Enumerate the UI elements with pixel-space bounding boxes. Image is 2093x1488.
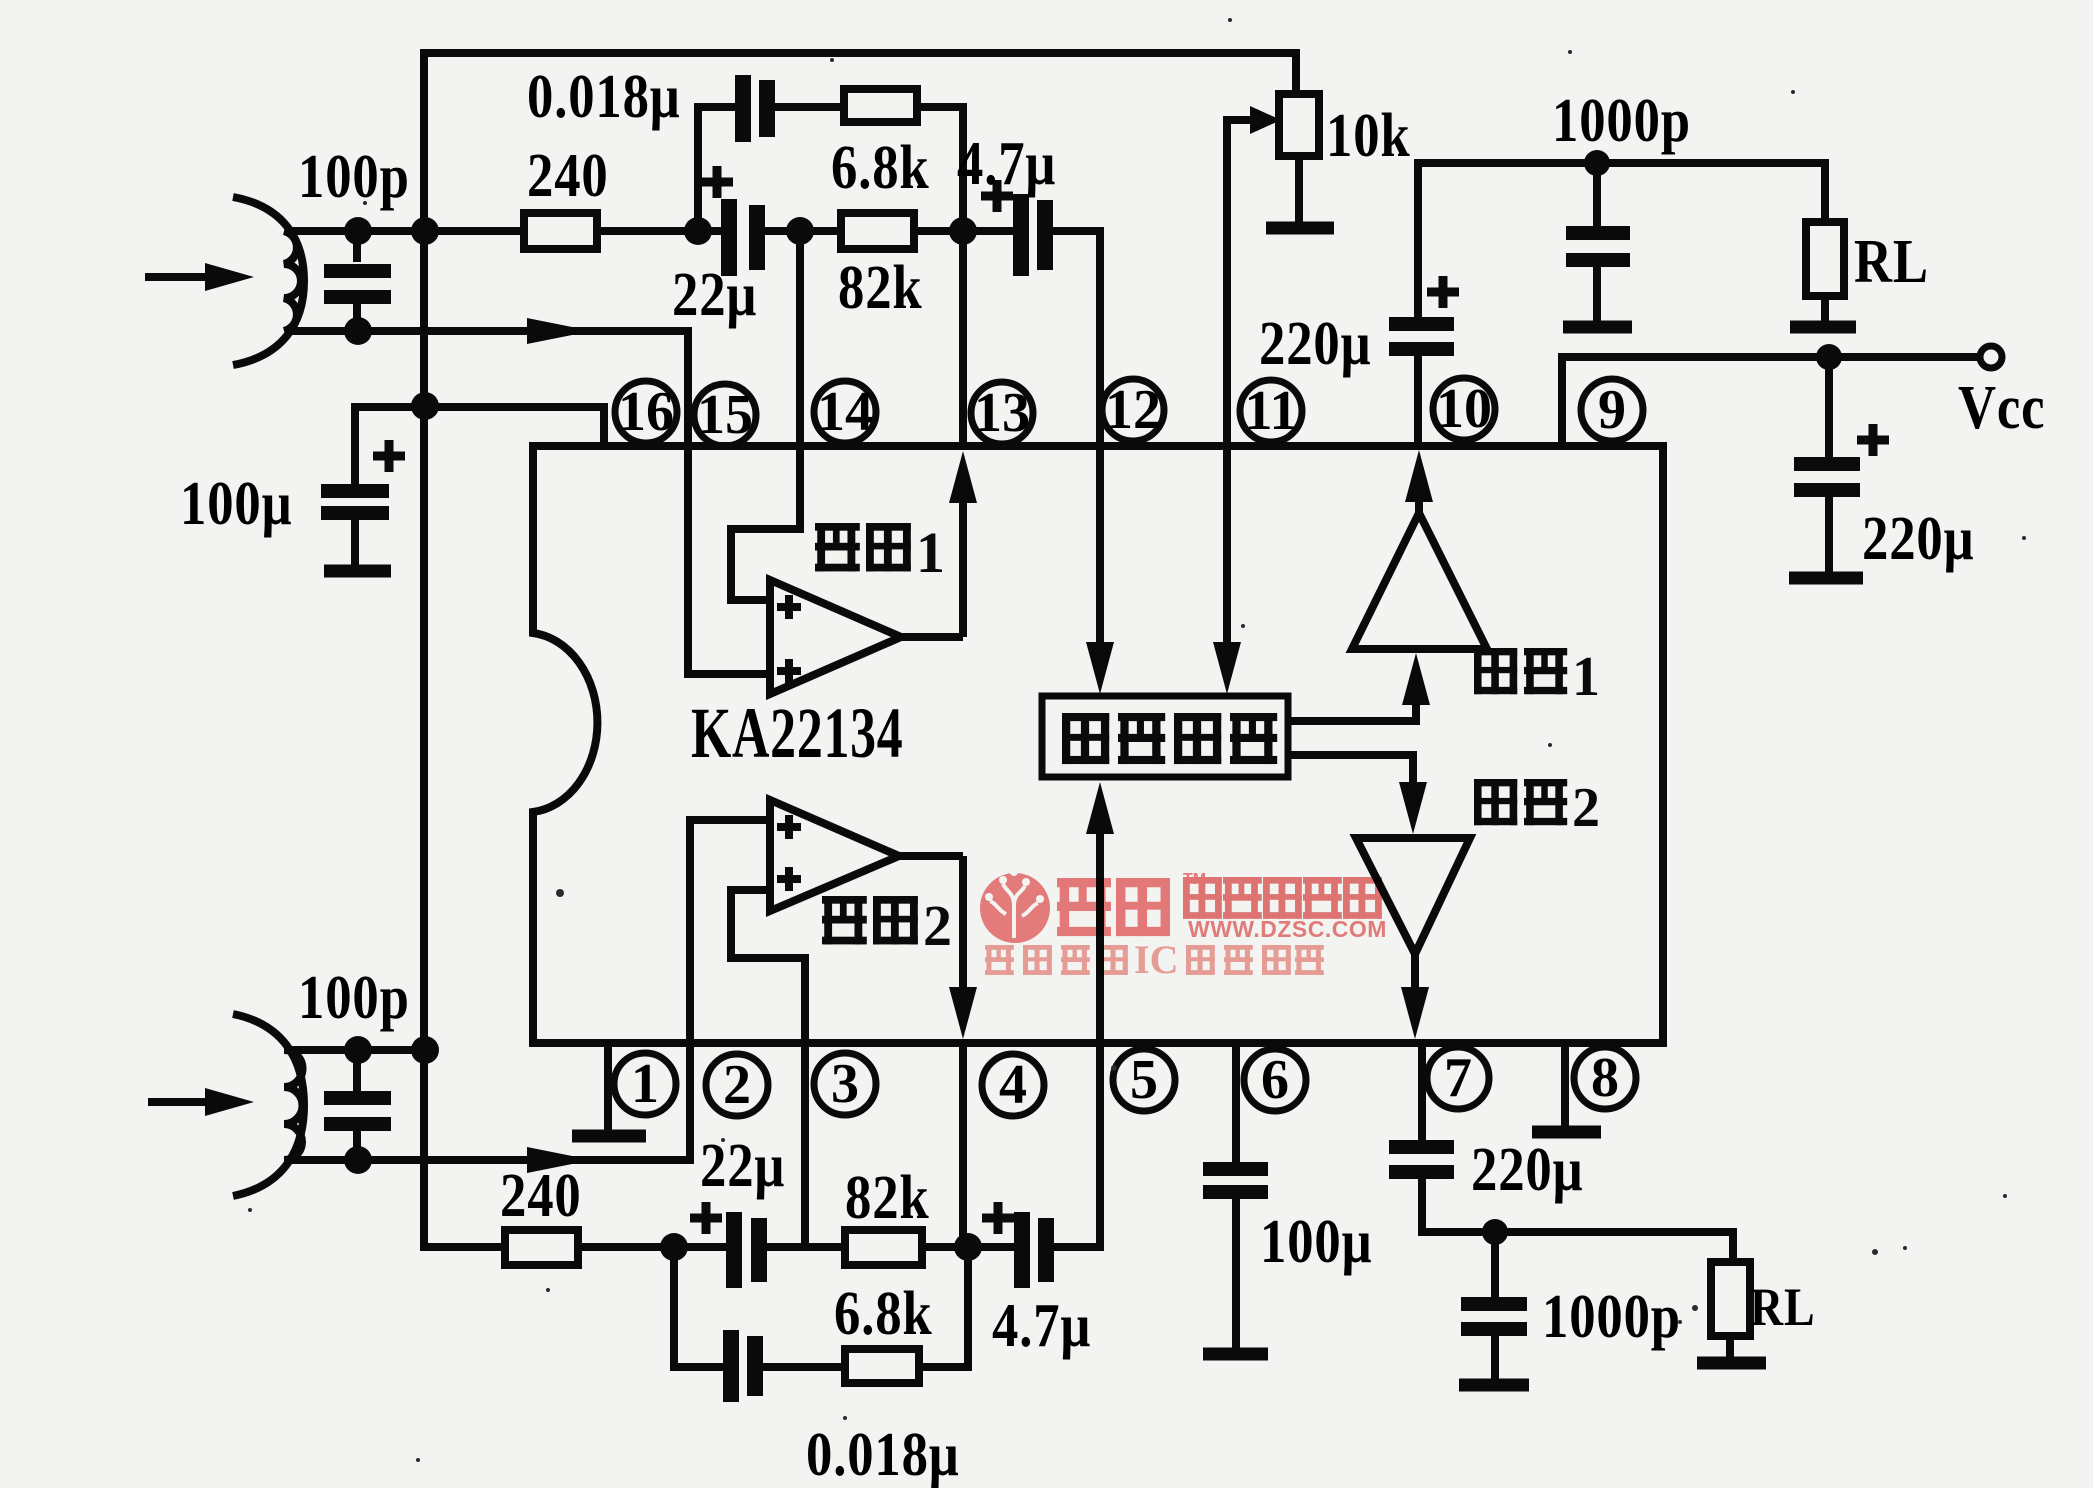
wire volume box to power amp2 input, down arrow bbox=[1288, 755, 1413, 790]
pin 14 bbox=[814, 381, 876, 443]
svg-text:100p: 100p bbox=[298, 143, 410, 211]
svg-text:1: 1 bbox=[631, 1053, 659, 1115]
capacitor 22u ch1 (vertical plates) bbox=[729, 199, 757, 276]
svg-text:9: 9 bbox=[1598, 379, 1626, 441]
wire ch1 head top line bbox=[291, 227, 524, 235]
svg-text:WWW.DZSC.COM: WWW.DZSC.COM bbox=[1188, 916, 1387, 942]
wire RL bottom lead bbox=[1726, 1336, 1734, 1357]
wire node B2 up to pin 4 bbox=[959, 1043, 967, 1251]
svg-text:5: 5 bbox=[1130, 1049, 1158, 1111]
resistor 240 top bbox=[524, 213, 597, 249]
arrow ch2 input bbox=[205, 1088, 254, 1116]
wire pin1 ground lead bbox=[604, 1043, 612, 1130]
node 22u/82k/pin14 bbox=[786, 217, 814, 245]
wire top rail bbox=[424, 49, 1296, 57]
node 1000p top bbox=[1584, 150, 1610, 176]
pin 16 bbox=[615, 381, 677, 443]
svg-text:10: 10 bbox=[1436, 378, 1492, 440]
svg-text:100p: 100p bbox=[298, 964, 410, 1032]
capacitor 0.018u ch2 bbox=[731, 1330, 755, 1402]
pin 12 bbox=[1102, 379, 1164, 441]
node rail/ch2 bbox=[411, 1036, 439, 1064]
wire Q2 output down to pin7 with arrow bbox=[1411, 950, 1419, 988]
node rail/ch1 bbox=[411, 217, 439, 245]
svg-text:2: 2 bbox=[723, 1054, 751, 1116]
wire pin10 220u column bbox=[1414, 159, 1422, 443]
wire 82k bottom to node B2 to 4.7u bottom bbox=[922, 1243, 1015, 1251]
resistor RL bottom bbox=[1711, 1262, 1750, 1336]
svg-text:6: 6 bbox=[1261, 1049, 1289, 1111]
pin 8 bbox=[1574, 1047, 1636, 1109]
watermark dianzishichangwang chars bbox=[1183, 877, 1382, 919]
wire pin15 inside to U1 lower input bbox=[688, 443, 774, 674]
node rail/pin16/100u bbox=[411, 392, 439, 420]
wire node B1 down to pin 13 bbox=[959, 227, 967, 443]
capacitor 220u right (Vcc) bbox=[1794, 464, 1860, 490]
svg-text:82k: 82k bbox=[845, 1164, 930, 1232]
pin 3 bbox=[814, 1053, 876, 1115]
op-amp U2 (qianzhi2) triangle bbox=[770, 800, 899, 911]
svg-text:2: 2 bbox=[1572, 777, 1600, 839]
resistor 6.8k bottom bbox=[845, 1349, 919, 1383]
svg-text:240: 240 bbox=[527, 142, 609, 210]
wire ch1 input stub bbox=[145, 273, 210, 281]
wire pin14 drop + staircase to U1 bbox=[731, 235, 800, 600]
capacitor 22u ch2 bbox=[734, 1212, 759, 1288]
wire pin8 ground lead bbox=[1561, 1043, 1569, 1126]
wire ch2 head top line bbox=[291, 1046, 424, 1054]
pin 5 bbox=[1113, 1049, 1175, 1111]
svg-text:1: 1 bbox=[1572, 646, 1600, 708]
svg-text:22μ: 22μ bbox=[700, 1132, 785, 1200]
ground RL bottom bbox=[1697, 1357, 1766, 1370]
pin 9 bbox=[1581, 379, 1643, 441]
watermark logo circle bbox=[980, 873, 1050, 943]
wire RL top bottom lead bbox=[1821, 296, 1829, 322]
svg-text:6.8k: 6.8k bbox=[831, 134, 930, 202]
pin 4 bbox=[982, 1054, 1044, 1116]
node A2 bbox=[660, 1233, 688, 1261]
arrow ch1 line to pin15 bbox=[527, 318, 592, 344]
pin 10 bbox=[1433, 378, 1495, 440]
wire 1000p top cap leads bbox=[1593, 163, 1601, 322]
svg-text:100μ: 100μ bbox=[1260, 1208, 1372, 1276]
svg-text:7: 7 bbox=[1444, 1047, 1472, 1109]
svg-text:3: 3 bbox=[831, 1053, 859, 1115]
watermark slogan chars bbox=[985, 937, 1178, 982]
wire volume box to power amp1 input, up arrow bbox=[1288, 690, 1416, 721]
capacitor 4.7u ch1 bbox=[1021, 194, 1045, 276]
label gongfang2 (Q2) bbox=[1474, 779, 1517, 825]
svg-text:11: 11 bbox=[1245, 380, 1298, 442]
wire 1000p bottom leads bbox=[1491, 1232, 1499, 1379]
pin 1 bbox=[614, 1053, 676, 1115]
resistor 6.8k top bbox=[844, 89, 917, 122]
wire pin16 from rail node bbox=[355, 407, 604, 443]
wire pin6 100u leads bbox=[1232, 1043, 1240, 1348]
svg-text:220μ: 220μ bbox=[1471, 1136, 1583, 1204]
svg-text:16: 16 bbox=[618, 381, 674, 443]
terminal Vcc open circle bbox=[1980, 346, 2002, 368]
svg-text:KA22134: KA22134 bbox=[691, 693, 903, 773]
wire 4.7u bottom to pin5 riser bbox=[1051, 1043, 1100, 1247]
ground 100u left bbox=[324, 565, 391, 578]
svg-text:1: 1 bbox=[916, 520, 945, 585]
plus 22u ch1 bbox=[701, 166, 733, 198]
potentiometer 10k body bbox=[1279, 94, 1319, 156]
capacitor 100p ch2 bbox=[353, 1056, 361, 1156]
label volume control box text bbox=[1062, 713, 1109, 764]
pin 6 bbox=[1244, 1049, 1306, 1111]
svg-text:4: 4 bbox=[999, 1054, 1027, 1116]
plus 4.7u ch2 bbox=[982, 1202, 1014, 1234]
node Vcc/220u bbox=[1816, 344, 1842, 370]
wire pin5 up into volume box with up arrow bbox=[1096, 800, 1104, 1043]
svg-text:220μ: 220μ bbox=[1862, 505, 1974, 573]
op-amp U1 triangle bbox=[770, 580, 901, 694]
svg-text:10k: 10k bbox=[1326, 102, 1411, 170]
svg-text:RL: RL bbox=[1854, 228, 1929, 296]
wire ch1 head bottom line to pin15 bbox=[291, 331, 688, 443]
plus 22u ch2 bbox=[690, 1202, 722, 1234]
wire pin3 riser bbox=[801, 1043, 809, 1247]
capacitor 0.018u ch1 bbox=[743, 75, 767, 142]
wire 240 bottom to node A2 bbox=[578, 1243, 727, 1251]
plus 220u right bbox=[1857, 424, 1889, 456]
watermark weiku big chars bbox=[1057, 878, 1111, 936]
wire 0.018u loop top: node A1 up, cap, to 6.8k, down to node B1 bbox=[698, 107, 736, 235]
pin 11 bbox=[1240, 380, 1302, 442]
svg-text:12: 12 bbox=[1105, 379, 1161, 441]
wire pin12 into volume box with down arrow bbox=[1096, 443, 1104, 650]
power amp Q1 (gongfang1) triangle bbox=[1352, 513, 1487, 649]
svg-text:15: 15 bbox=[697, 384, 753, 446]
capacitor 220u bottom (pin7) bbox=[1389, 1147, 1454, 1172]
node A1 bbox=[684, 217, 712, 245]
wire left rail bbox=[424, 49, 505, 1247]
svg-text:8: 8 bbox=[1591, 1047, 1619, 1109]
wire U2 output to pin4 with down arrow bbox=[895, 856, 963, 990]
pin 15 bbox=[694, 384, 756, 446]
resistor RL top bbox=[1806, 222, 1844, 296]
wire U1 output to pin13 with up arrow bbox=[897, 500, 963, 637]
capacitor 100p ch1 bbox=[353, 238, 361, 327]
capacitor 4.7u ch2 bbox=[1022, 1212, 1046, 1288]
wire 100u left cap lead bbox=[351, 403, 359, 484]
pin 2 bbox=[706, 1054, 768, 1116]
wire pin11 into volume box with down arrow bbox=[1223, 443, 1231, 650]
wire pin2 inside to U2 upper input bbox=[690, 820, 774, 1047]
node ch2 100p bottom bbox=[344, 1146, 372, 1174]
wire 4.7u to pin12 drop bbox=[1050, 231, 1100, 443]
wire Vcc rail bbox=[1562, 353, 1982, 443]
svg-text:1000p: 1000p bbox=[1552, 87, 1691, 155]
node ch1 100p bottom bbox=[344, 317, 372, 345]
wire 220u right leads bbox=[1825, 357, 1833, 572]
svg-text:220μ: 220μ bbox=[1259, 310, 1371, 378]
wire 1000p top rail bbox=[1418, 163, 1825, 222]
ground 100u bottom bbox=[1203, 1348, 1268, 1361]
pin 7 bbox=[1427, 1047, 1489, 1109]
svg-text:14: 14 bbox=[817, 381, 873, 443]
svg-text:2: 2 bbox=[923, 893, 952, 958]
svg-text:13: 13 bbox=[974, 382, 1030, 444]
ground 10k pot bbox=[1266, 222, 1334, 235]
arrow 10k wiper bbox=[1250, 106, 1281, 134]
magnetic head ch2 coil bbox=[233, 1014, 304, 1196]
resistor 82k bottom bbox=[845, 1230, 922, 1265]
svg-text:IC: IC bbox=[1134, 937, 1178, 982]
svg-text:22μ: 22μ bbox=[672, 261, 757, 329]
wire pin7 220u leads bbox=[1422, 1043, 1733, 1262]
wire Q1 output up to pin10 with arrow bbox=[1415, 498, 1423, 516]
capacitor 220u pin10 bbox=[1389, 324, 1454, 349]
wire ch2 input stub bbox=[148, 1098, 210, 1106]
svg-text:Vcc: Vcc bbox=[1958, 374, 2045, 442]
arrow ch1 input bbox=[205, 263, 254, 291]
svg-text:RL: RL bbox=[1750, 1277, 1815, 1337]
svg-text:240: 240 bbox=[500, 1162, 582, 1230]
resistor 82k top bbox=[841, 213, 914, 249]
wire ch2 head bottom line to pin2 bbox=[291, 1043, 690, 1160]
arrow ch2 line to pin2 bbox=[527, 1147, 592, 1173]
plus 4.7u ch1 bbox=[981, 180, 1013, 212]
node pin7/1000p/RL bbox=[1482, 1219, 1508, 1245]
wire pin3 inside staircase to U2 lower input bbox=[731, 890, 805, 1047]
capacitor 100u left bbox=[321, 491, 389, 513]
volume control box bbox=[1042, 696, 1288, 777]
wire 100u left cap bottom lead bbox=[351, 516, 359, 566]
wire node A2 22u to 82k bottom bbox=[763, 1243, 845, 1251]
svg-text:82k: 82k bbox=[838, 254, 923, 322]
resistor 240 bottom bbox=[505, 1230, 578, 1265]
plus 100u left bbox=[373, 440, 405, 472]
wire 240 top to node A bbox=[597, 227, 723, 235]
node ch2 head/100p bbox=[344, 1036, 372, 1064]
wire node A1 22u to 82k bbox=[763, 227, 841, 235]
pin 13 bbox=[971, 382, 1033, 444]
plus 220u pin10 bbox=[1427, 276, 1459, 308]
ground 220u right bbox=[1789, 572, 1863, 585]
magnetic head ch1 coil bbox=[233, 197, 304, 365]
svg-text:1000p: 1000p bbox=[1542, 1283, 1681, 1351]
label gongfang1 (Q1) bbox=[1474, 648, 1517, 694]
ground 1000p bottom bbox=[1459, 1379, 1529, 1392]
capacitor 100u bottom (pin6) bbox=[1203, 1169, 1268, 1192]
node B1 bbox=[949, 217, 977, 245]
svg-text:4.7μ: 4.7μ bbox=[992, 1292, 1091, 1360]
svg-text:6.8k: 6.8k bbox=[834, 1280, 933, 1348]
wire 10k wiper to pin11 bbox=[1227, 116, 1252, 443]
wire 10k pot bottom lead bbox=[1295, 156, 1303, 224]
label qianzhi2 (U2) bbox=[822, 896, 867, 944]
ground RL top bbox=[1790, 321, 1856, 334]
ground 1000p top bbox=[1563, 321, 1632, 334]
wire 82k to node B1 to 4.7u bbox=[914, 227, 1014, 235]
svg-text:100μ: 100μ bbox=[180, 470, 292, 538]
wire 10k pot top lead bbox=[1292, 49, 1300, 94]
label qianzhi1 (U1) bbox=[815, 523, 860, 571]
node ch1 head/100p bbox=[344, 217, 372, 245]
node B2 bbox=[954, 1233, 982, 1261]
power amp Q2 (gongfang2) triangle bbox=[1356, 838, 1470, 954]
ground pin1 bbox=[572, 1130, 646, 1143]
svg-text:4.7μ: 4.7μ bbox=[957, 130, 1056, 198]
wire 0.018u loop bottom bbox=[674, 1243, 724, 1367]
svg-text:0.018μ: 0.018μ bbox=[806, 1421, 960, 1488]
ground pin8 bbox=[1532, 1126, 1601, 1139]
capacitor 1000p bottom bbox=[1461, 1304, 1527, 1329]
svg-text:0.018μ: 0.018μ bbox=[527, 63, 681, 131]
capacitor 1000p top bbox=[1566, 233, 1630, 260]
IC U1 KA22134 body outline with notch bbox=[533, 446, 1663, 1043]
